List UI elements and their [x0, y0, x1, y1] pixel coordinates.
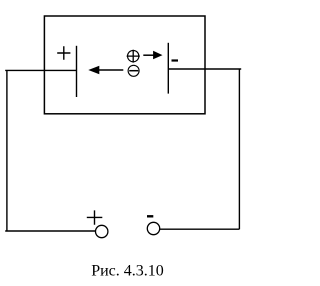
svg-text:Рис. 4.3.10: Рис. 4.3.10 — [91, 262, 164, 279]
